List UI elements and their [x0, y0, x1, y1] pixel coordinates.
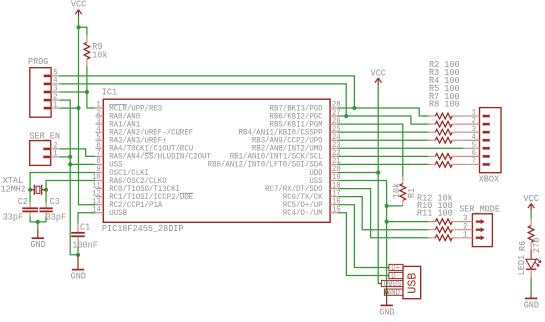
- wire IC pin17 RC6 to R10: [338, 197, 428, 230]
- resistor R4: [428, 129, 463, 135]
- resistor R1: [400, 177, 406, 206]
- wire UBUS to VCC rail: [378, 283, 381, 285]
- label R1 (rotated): [407, 188, 417, 198]
- PROG pin number 3: [53, 85, 58, 94]
- svg-text:IC1: IC1: [102, 86, 118, 97]
- svg-text:PIC18F2455_28DIP: PIC18F2455_28DIP: [102, 223, 184, 234]
- svg-text:VCC: VCC: [71, 0, 87, 10]
- resistor R9: [84, 35, 90, 66]
- XBOX pin 5 lead: [463, 147, 479, 149]
- IC pin 14 lead: [95, 212, 103, 214]
- svg-text:12MHz: 12MHz: [1, 183, 27, 194]
- IC pin 26 name: [270, 120, 323, 129]
- SER_MODE pin 1 lead: [456, 237, 472, 239]
- junction C1/GND rail: [76, 253, 80, 257]
- USB pin UBUS name: [384, 280, 402, 289]
- IC pin number 4: [96, 125, 101, 134]
- XBOX pin 3 stub: [483, 131, 490, 134]
- SER_EN pin 1 stub: [43, 156, 50, 159]
- IC pin 15 name: [283, 209, 323, 218]
- IC pin 1 name: [109, 104, 162, 113]
- svg-text:C3: C3: [50, 196, 60, 207]
- svg-text:XBOX: XBOX: [479, 174, 500, 185]
- IC pin 11 lead: [95, 188, 103, 190]
- wire R9 bottom to MCLR junction: [86, 66, 88, 92]
- IC U1 PIC18F2455 body: [103, 99, 330, 222]
- IC pin number 8: [96, 157, 101, 166]
- IC pin 27 name: [270, 112, 323, 121]
- IC pin number 9: [96, 165, 101, 174]
- label R3 100: [429, 67, 460, 78]
- XBOX pin number 5: [472, 141, 477, 150]
- IC pin number 12: [92, 189, 101, 198]
- wire IC pin9 OSC1 to crystal: [30, 173, 95, 190]
- PROG pin 4 lead: [51, 83, 60, 85]
- crystal Q1 XTAL: [30, 185, 46, 195]
- svg-text:R1: R1: [407, 188, 417, 198]
- XBOX pin number 1: [472, 109, 477, 118]
- USB pin UBUS name box: [381, 280, 403, 286]
- overline MCLR: [109, 104, 127, 106]
- junction R9/PROG3/MCLR: [85, 90, 89, 94]
- PROG pin 3 lead: [51, 91, 60, 93]
- IC pin number 5: [96, 133, 101, 142]
- IC pin number 6: [96, 141, 101, 150]
- wire RB7 row to step-down: [338, 108, 428, 116]
- wire VCC symbol to junction: [78, 17, 80, 28]
- resistor R7: [428, 154, 463, 160]
- svg-text:C1: C1: [80, 222, 91, 233]
- label R9: [92, 41, 102, 52]
- SER_EN pin number 2: [53, 142, 58, 151]
- XBOX pin 4 lead: [463, 139, 479, 141]
- svg-text:GND: GND: [71, 271, 87, 282]
- resistor R5: [428, 137, 463, 143]
- IC pin number 26: [332, 117, 341, 126]
- label R5 100: [429, 83, 460, 94]
- svg-text:GND: GND: [524, 299, 540, 310]
- IC pin 3 name: [109, 120, 140, 129]
- USB pin D- name box: [389, 272, 403, 278]
- IC pin 7 lead: [95, 155, 103, 157]
- IC pin number 24: [332, 133, 341, 142]
- wire MCLR to IC pin1: [87, 92, 95, 108]
- label XTAL: [3, 175, 23, 186]
- IC pin 2 lead: [95, 115, 103, 117]
- PROG pin 2 stub: [44, 99, 51, 102]
- label R7 100: [429, 91, 460, 102]
- svg-text:14: 14: [92, 205, 101, 214]
- value 33pF (C3): [46, 212, 66, 223]
- wire VCC to R6: [530, 211, 532, 219]
- label R8 100: [429, 99, 460, 110]
- resistor R11: [428, 235, 456, 241]
- IC pin 6 name: [109, 145, 193, 154]
- junction VSS/R12: [385, 220, 389, 224]
- IC pin 8 name: [109, 161, 122, 170]
- XBOX pin 3 lead: [463, 131, 479, 133]
- value 10k (R1, rotated): [392, 183, 402, 198]
- IC pin number 21: [332, 157, 341, 166]
- junction RB6/PROG4: [344, 114, 348, 118]
- XBOX pin 2 stub: [483, 123, 490, 126]
- XBOX pin number 6: [472, 149, 477, 158]
- SER_MODE pin 2 stub: [476, 227, 485, 232]
- junction OSC1/XTAL/C2: [28, 188, 32, 192]
- XBOX pin number 2: [472, 117, 477, 126]
- connector USB body: [403, 266, 421, 298]
- ground GND (C1): [71, 255, 87, 282]
- wire R1 bottom to VSS rail: [387, 205, 403, 207]
- LED LED1: [526, 250, 541, 278]
- XBOX pin 6 stub: [483, 155, 490, 158]
- svg-text:7: 7: [472, 157, 477, 166]
- overline SS (pin7): [145, 152, 154, 154]
- SER_EN pin 2 stub: [43, 148, 50, 151]
- PROG pin 5 stub: [44, 75, 51, 78]
- value 270 (R6, rotated): [532, 238, 542, 253]
- PROG pin number 5: [53, 69, 58, 78]
- SER_MODE pin number 3: [463, 214, 468, 223]
- value PIC18F2455_28DIP: [102, 223, 184, 234]
- IC pin number 25: [332, 125, 341, 134]
- value 33pF (C2): [3, 212, 23, 223]
- IC pin number 16: [332, 197, 341, 206]
- IC pin 1 lead: [95, 107, 103, 109]
- IC pin 12 lead: [95, 196, 103, 198]
- junction VDD/VCC rail: [376, 170, 380, 174]
- USB pin D- name: [391, 272, 400, 281]
- ground GND (LED): [524, 295, 540, 311]
- SER_EN pin number 1: [53, 150, 58, 159]
- IC pin number 17: [332, 189, 341, 198]
- IC pin 2 name: [109, 112, 140, 121]
- svg-text:RA5/AN4/SS/HLUDIN/C2OUT: RA5/AN4/SS/HLUDIN/C2OUT: [109, 153, 211, 162]
- svg-text:SER_EN: SER_EN: [29, 130, 60, 141]
- junction VCC rail / PROG pin1: [76, 106, 80, 110]
- IC pin 8 lead: [95, 163, 103, 165]
- wire IC pin18 RC7 to R11: [338, 189, 428, 238]
- SER_MODE pin 2 lead: [456, 229, 472, 231]
- IC pin number 27: [332, 109, 341, 118]
- wire PROG5 to RB7 column: [60, 76, 355, 108]
- SER_MODE pin 3 lead: [456, 221, 472, 223]
- capacitor C1: [71, 224, 85, 255]
- connector PROG outline: [30, 68, 51, 118]
- ground GND (crystal): [30, 230, 46, 251]
- label SER_EN: [29, 130, 60, 141]
- PROG pin 1 lead: [51, 107, 60, 109]
- IC pin number 10: [92, 173, 101, 182]
- IC pin 21 name: [208, 161, 323, 170]
- PROG pin 1 stub: [44, 107, 51, 110]
- junction VCC/R9/rail: [76, 25, 80, 29]
- IC pin 18 lead: [330, 188, 338, 190]
- IC pin 12 name: [109, 193, 193, 202]
- svg-text:1: 1: [463, 230, 468, 239]
- IC pin 14 name: [109, 209, 127, 218]
- PROG pin 3 stub: [44, 91, 51, 94]
- IC pin 15 lead: [330, 212, 338, 214]
- IC pin number 18: [332, 181, 341, 190]
- wire IC pin19 VSS rail: [338, 181, 387, 293]
- IC pin 10 lead: [95, 180, 103, 182]
- wire RB1 row: [338, 155, 428, 157]
- wire RB6 row to step-down: [338, 116, 428, 124]
- wire PROG3 to MCLR junction: [60, 91, 87, 93]
- SER_MODE pin 1 stub: [476, 235, 485, 240]
- IC pin 28 lead: [330, 107, 338, 109]
- IC pin 20 name: [309, 169, 322, 178]
- wire PROG4 to RB6 column: [60, 84, 347, 116]
- XBOX pin number 7: [472, 157, 477, 166]
- svg-text:UUSB: UUSB: [109, 209, 127, 218]
- IC pin number 20: [332, 165, 341, 174]
- junction SER_EN1/GND rail: [68, 155, 72, 159]
- label PROG: [28, 56, 48, 67]
- IC pin 19 name: [309, 177, 322, 186]
- XBOX pin 4 stub: [483, 139, 490, 142]
- USB pin GND name: [387, 289, 400, 298]
- svg-text:100nF: 100nF: [72, 240, 98, 251]
- label USB (rotated, red): [406, 273, 420, 294]
- IC pin 16 name: [283, 201, 323, 210]
- resistor R2: [428, 113, 463, 119]
- connector XBOX outline: [480, 108, 502, 173]
- resistor R8: [428, 162, 463, 168]
- value 10k (R9): [92, 49, 108, 60]
- wire GND rail to IC pin8 VSS: [70, 163, 95, 165]
- wire VCC junction to R9 top: [79, 27, 87, 35]
- IC pin 25 lead: [330, 131, 338, 133]
- IC pin 9 lead: [95, 171, 103, 173]
- IC pin 24 lead: [330, 139, 338, 141]
- label R11 100: [417, 208, 453, 219]
- IC pin 5 lead: [95, 139, 103, 141]
- svg-text:UBUS: UBUS: [384, 280, 402, 289]
- PROG pin 4 stub: [44, 83, 51, 86]
- label IC1: [102, 86, 118, 97]
- resistor R10: [428, 227, 456, 233]
- IC pin 11 name: [109, 185, 180, 194]
- resistor R6: [528, 218, 534, 250]
- wire IC pin20 VDD: [338, 171, 378, 173]
- svg-text:1: 1: [53, 150, 58, 159]
- PROG pin number 4: [53, 77, 58, 86]
- SER_EN pin 2 lead: [51, 148, 60, 150]
- junction USB GND / VSS rail: [385, 290, 389, 294]
- IC pin 7 name: [109, 153, 211, 162]
- IC pin 17 name: [283, 193, 323, 202]
- wire IC pin16 RC5 to USB D+: [338, 205, 389, 268]
- IC pin number 1: [96, 101, 101, 110]
- overline UOE (pin12): [180, 192, 193, 194]
- IC pin 3 lead: [95, 123, 103, 125]
- XBOX pin 1 lead: [463, 115, 479, 117]
- svg-text:1: 1: [53, 101, 58, 110]
- XBOX pin 7 stub: [483, 163, 490, 166]
- wire RB0 row: [338, 163, 428, 165]
- IC pin number 11: [92, 181, 101, 190]
- capacitor C3: [40, 190, 53, 222]
- label C3: [50, 196, 60, 207]
- label LED1 (rotated): [517, 255, 527, 275]
- XBOX pin number 3: [472, 125, 477, 134]
- IC pin number 19: [332, 173, 341, 182]
- wire LED to GND: [530, 278, 532, 295]
- wire SER_EN1 to GND rail: [60, 156, 71, 158]
- IC pin number 2: [96, 109, 101, 118]
- XBOX pin 6 lead: [463, 155, 479, 157]
- wire USB GND: [384, 291, 386, 293]
- wire RB4 row: [338, 131, 428, 133]
- IC pin 18 name: [265, 185, 323, 194]
- IC pin number 7: [96, 149, 101, 158]
- wire PROG1 to VCC rail: [60, 107, 79, 109]
- IC pin number 3: [96, 117, 101, 126]
- IC pin 27 lead: [330, 115, 338, 117]
- junction OSC2/XTAL/C3: [44, 188, 48, 192]
- ground GND (USB): [379, 292, 395, 317]
- junction GND rail / pin8: [68, 162, 72, 166]
- IC pin number 23: [332, 141, 341, 150]
- wire IC pin10 OSC2 to crystal: [46, 181, 95, 190]
- svg-text:SER_MODE: SER_MODE: [459, 204, 500, 215]
- svg-text:GND: GND: [30, 239, 46, 250]
- SER_EN pin 1 lead: [51, 156, 60, 158]
- IC pin 24 name: [252, 137, 323, 146]
- power VCC (middle): [371, 68, 387, 85]
- IC pin 6 lead: [95, 147, 103, 149]
- svg-text:33pF: 33pF: [3, 212, 23, 223]
- svg-text:PROG: PROG: [28, 56, 48, 67]
- IC pin 4 name: [109, 128, 193, 137]
- svg-text:RB0/AN12/INT0/LFT0/SDI/SDA: RB0/AN12/INT0/LFT0/SDI/SDA: [208, 161, 323, 170]
- power VCC (right): [524, 193, 540, 211]
- IC pin 4 lead: [95, 131, 103, 133]
- IC pin 26 lead: [330, 123, 338, 125]
- XBOX pin 7 lead: [463, 163, 479, 165]
- XBOX pin 2 lead: [463, 123, 479, 125]
- svg-text:10k: 10k: [392, 183, 402, 198]
- IC pin number 22: [332, 149, 341, 158]
- svg-text:VCC: VCC: [371, 68, 387, 79]
- IC pin number 28: [332, 101, 341, 110]
- USB pin GND name box: [384, 289, 403, 295]
- svg-text:R6: R6: [518, 241, 528, 251]
- IC pin 22 name: [230, 153, 323, 162]
- SER_MODE pin number 1: [463, 230, 468, 239]
- wire IC pin15 RC4 to USB D-: [338, 213, 389, 276]
- svg-text:LED1: LED1: [517, 255, 527, 275]
- junction R1/VSS rail: [385, 204, 389, 208]
- wire RB2 row (to XBOX5 direct): [338, 147, 463, 149]
- IC pin 28 name: [270, 104, 323, 113]
- XBOX pin 5 stub: [483, 147, 490, 150]
- XBOX pin number 4: [472, 133, 477, 142]
- svg-text:VCC: VCC: [524, 193, 540, 204]
- svg-text:10k: 10k: [92, 49, 108, 60]
- IC pin 22 lead: [330, 155, 338, 157]
- IC pin 20 lead: [330, 171, 338, 173]
- wire PROG2 GND rail down: [60, 100, 78, 255]
- wire VCC rail down (PROG1, to pin13): [79, 27, 96, 205]
- wire RB5 to R1 top: [338, 124, 403, 176]
- IC pin 23 name: [252, 145, 323, 154]
- wire IC pin14 VUSB to C1: [78, 213, 95, 224]
- IC pin 13 name: [109, 201, 162, 210]
- IC pin 23 lead: [330, 147, 338, 149]
- IC pin number 13: [92, 197, 101, 206]
- value 12MHz (XTAL): [1, 183, 27, 194]
- svg-text:RC4/D-/UM: RC4/D-/UM: [283, 209, 323, 218]
- SER_MODE pin number 2: [463, 222, 468, 231]
- svg-text:GND: GND: [379, 306, 395, 317]
- value 100nF (C1): [72, 240, 98, 251]
- PROG pin 5 lead: [51, 75, 60, 77]
- junction C2/C3/GND: [36, 220, 40, 224]
- svg-text:270: 270: [532, 238, 542, 253]
- IC pin 5 name: [109, 137, 167, 146]
- label SER_MODE: [459, 204, 500, 215]
- wire SER_EN2 to IC pin7: [60, 149, 96, 157]
- label R2 100: [429, 59, 460, 70]
- connector SER_EN outline: [30, 141, 51, 166]
- IC pin 21 lead: [330, 163, 338, 165]
- PROG pin number 2: [53, 93, 58, 102]
- wire VCC to VDD junction and UBUS: [378, 85, 382, 283]
- svg-text:USB: USB: [406, 273, 420, 294]
- junction RB7/PROG5: [352, 106, 356, 110]
- USB pin D+ name: [391, 264, 400, 273]
- IC pin 25 name: [239, 128, 323, 137]
- wire VSS rail to R12: [387, 221, 429, 223]
- svg-text:R11 100: R11 100: [417, 208, 453, 219]
- capacitor C2: [22, 190, 38, 222]
- IC pin 10 name: [109, 177, 167, 186]
- label R4 100: [429, 75, 460, 86]
- IC pin 13 lead: [95, 204, 103, 206]
- label C2: [18, 196, 28, 207]
- PROG pin 2 lead: [51, 99, 60, 101]
- IC pin number 15: [332, 205, 341, 214]
- resistor R12: [428, 219, 456, 225]
- label R6 (rotated): [518, 241, 528, 251]
- svg-text:GND: GND: [387, 289, 400, 298]
- label XBOX: [479, 174, 500, 185]
- label R10 100: [417, 200, 453, 211]
- label R12 10k: [417, 193, 453, 204]
- connector SER_MODE outline: [472, 214, 492, 247]
- label C1: [80, 222, 91, 233]
- USB pin D+ name box: [389, 264, 403, 270]
- svg-text:C2: C2: [18, 196, 28, 207]
- XBOX pin 1 stub: [483, 115, 490, 118]
- SER_MODE pin 3 stub: [476, 219, 485, 224]
- PROG pin number 1: [53, 101, 58, 110]
- IC pin number 14: [92, 205, 101, 214]
- wire C2/C3 commons: [30, 222, 46, 230]
- IC pin 17 lead: [330, 196, 338, 198]
- svg-text:R8 100: R8 100: [429, 99, 460, 110]
- power VCC (top left): [71, 0, 87, 17]
- IC pin 9 name: [109, 169, 149, 178]
- wire RB3 row: [338, 139, 428, 141]
- IC pin 19 lead: [330, 180, 338, 182]
- svg-text:33pF: 33pF: [46, 212, 66, 223]
- resistor R3: [428, 121, 463, 127]
- IC pin 16 lead: [330, 204, 338, 206]
